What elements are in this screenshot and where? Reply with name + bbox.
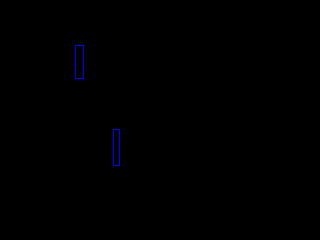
resistor R1 <box>76 46 84 79</box>
circuit schematic canvas <box>0 0 200 200</box>
resistor R2 <box>114 130 120 166</box>
